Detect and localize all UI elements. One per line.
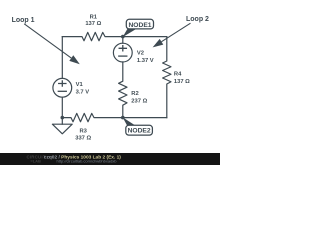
wire ground stub [61, 118, 63, 125]
V2 plus sign [119, 46, 126, 51]
wire middle branch upper (node1 to V2 top) [122, 37, 124, 44]
wire left branch upper (to V1 top) [61, 37, 63, 79]
watermark bar [0, 153, 220, 165]
svg-text:137 Ω: 137 Ω [174, 79, 190, 85]
Loop 2 annotation arrow [153, 23, 191, 47]
wire middle with resistor R2 zigzag [119, 62, 127, 118]
node NODE2 flag tail [123, 117, 137, 126]
svg-text:1.37 V: 1.37 V [137, 58, 154, 64]
svg-text:Loop 1: Loop 1 [12, 17, 35, 24]
svg-text:NODE2: NODE2 [128, 128, 151, 135]
wire left branch lower (V1 bottom to node) [61, 97, 63, 117]
node NODE1 flag tail [123, 29, 137, 37]
svg-text:R4: R4 [174, 72, 182, 78]
voltage source V2 circle [113, 43, 132, 62]
Loop 1 annotation arrow [24, 24, 80, 64]
svg-text:R1: R1 [90, 15, 98, 21]
svg-text:337 Ω: 337 Ω [75, 136, 91, 142]
svg-text:3.7 V: 3.7 V [76, 90, 90, 96]
voltage source V1 circle [53, 78, 72, 97]
wire bottom with resistor R3 zigzag [62, 113, 167, 121]
node NODE1 label box [126, 19, 153, 29]
svg-text:V1: V1 [76, 82, 84, 88]
node A junction dot (NODE1) [121, 35, 125, 39]
V1 minus sign [58, 90, 66, 92]
svg-text:NODE1: NODE1 [128, 22, 151, 29]
wire right branch with resistor R4 zigzag [163, 37, 171, 118]
svg-text:V2: V2 [137, 51, 144, 57]
svg-text:Loop 2: Loop 2 [186, 16, 209, 23]
svg-text:237 Ω: 237 Ω [131, 98, 147, 104]
node B junction dot (ground/left) [61, 116, 65, 120]
svg-text:R3: R3 [79, 128, 87, 134]
svg-text:137 Ω: 137 Ω [85, 21, 101, 27]
node NODE2 label box [126, 125, 153, 135]
V1 plus sign [59, 81, 66, 86]
node C junction dot (NODE2) [121, 116, 125, 120]
V2 minus sign [119, 55, 127, 57]
wire top with resistor R1 zigzag [62, 32, 167, 40]
svg-text:R2: R2 [131, 91, 138, 97]
svg-text:http://circuitlab.com/chwbhbxa: http://circuitlab.com/chwbhbxadxb [57, 158, 118, 163]
svg-text:≈LAB: ≈LAB [31, 158, 42, 163]
ground symbol [52, 124, 72, 134]
